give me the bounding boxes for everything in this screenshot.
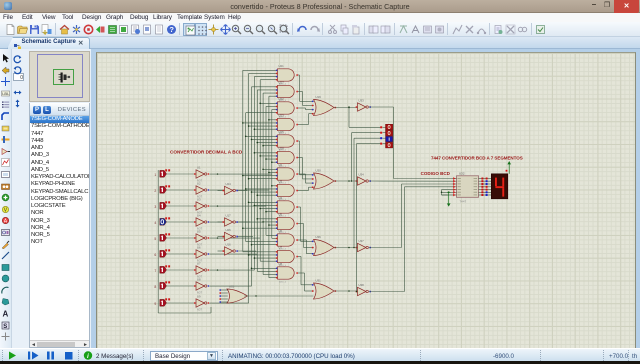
svg-text:U5: U5 <box>197 229 201 233</box>
svg-text:U2: U2 <box>197 181 201 185</box>
svg-text:AND_4: AND_4 <box>279 280 287 283</box>
svg-text:U25: U25 <box>279 130 285 134</box>
svg-text:NOT: NOT <box>197 308 203 311</box>
svg-text:U9: U9 <box>197 294 201 298</box>
svg-text:U32: U32 <box>459 172 465 176</box>
svg-text:U34: U34 <box>359 172 365 176</box>
svg-text:U36: U36 <box>316 235 322 239</box>
svg-text:LBL: LBL <box>2 91 10 96</box>
svg-text:U31: U31 <box>316 278 322 282</box>
svg-text:U16: U16 <box>226 242 232 246</box>
svg-text:CODIGO BCD: CODIGO BCD <box>421 171 451 176</box>
svg-text:7447 CONVERTIDOR BCD A 7 SEGME: 7447 CONVERTIDOR BCD A 7 SEGMENTOS <box>431 155 523 160</box>
svg-text:U7: U7 <box>279 246 283 250</box>
svg-text:U21: U21 <box>279 64 285 68</box>
svg-text:U3: U3 <box>279 180 283 184</box>
svg-text:U38: U38 <box>359 283 365 287</box>
svg-text:7447: 7447 <box>460 200 467 204</box>
svg-text:U4: U4 <box>197 213 201 217</box>
svg-text:U19: U19 <box>316 95 322 99</box>
svg-text:U8: U8 <box>197 277 201 281</box>
svg-text:4: 4 <box>154 221 156 225</box>
svg-text:U27: U27 <box>279 81 285 85</box>
svg-text:5: 5 <box>154 237 156 241</box>
svg-text:U23: U23 <box>279 114 285 118</box>
svg-text:8: 8 <box>154 285 156 289</box>
svg-text:U5: U5 <box>279 213 283 217</box>
svg-text:3: 3 <box>154 205 156 209</box>
svg-text:6: 6 <box>154 253 156 257</box>
svg-text:U4: U4 <box>279 196 283 200</box>
svg-text:U3: U3 <box>197 197 201 201</box>
svg-text:2: 2 <box>154 189 156 193</box>
svg-text:1: 1 <box>154 173 156 177</box>
svg-text:U28: U28 <box>279 147 285 151</box>
svg-text:U6: U6 <box>279 229 283 233</box>
svg-text:U26: U26 <box>226 228 232 232</box>
svg-text:U1: U1 <box>197 165 201 169</box>
svg-text:?: ? <box>169 25 174 34</box>
svg-text:U6: U6 <box>197 245 201 249</box>
svg-text:U24: U24 <box>226 182 232 186</box>
svg-text:7: 7 <box>154 269 156 273</box>
svg-text:9: 9 <box>154 302 156 306</box>
svg-text:CONVERTIDOR DECIMAL A BCD: CONVERTIDOR DECIMAL A BCD <box>170 150 243 155</box>
svg-text:U35: U35 <box>229 284 235 288</box>
svg-text:U7: U7 <box>197 261 201 265</box>
svg-text:U2: U2 <box>279 163 283 167</box>
svg-text:U37: U37 <box>359 239 365 243</box>
svg-text:U22: U22 <box>279 97 285 101</box>
svg-text:U30: U30 <box>316 168 322 172</box>
svg-text:U17: U17 <box>226 213 232 217</box>
svg-text:i: i <box>87 353 89 360</box>
svg-text:U33: U33 <box>359 98 365 102</box>
svg-text:U8: U8 <box>279 262 283 266</box>
